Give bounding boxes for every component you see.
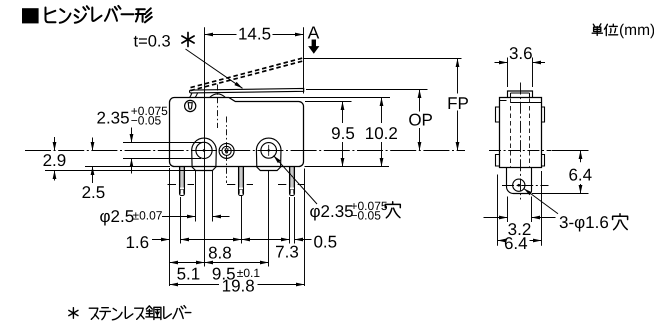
hinge lever free position (dashed) [191, 58, 304, 91]
extension line from lever tip (OP reference) [306, 89, 428, 91]
dimension 3.2 (bracket width) [508, 197, 532, 223]
svg-text:10.2: 10.2 [365, 124, 398, 143]
leader phi2.35 hole (to right mounting hole) [274, 156, 318, 204]
svg-text:6.4: 6.4 [568, 165, 592, 184]
small catch hole with U-clip, top-left [185, 100, 196, 111]
svg-text:5.1: 5.1 [177, 264, 201, 283]
svg-text:7.3: 7.3 [275, 242, 299, 261]
dimension 9.5 (vertical, right of body) [342, 102, 344, 167]
svg-text:(mm): (mm) [619, 22, 654, 39]
svg-text:φ2.35: φ2.35 [310, 202, 354, 221]
horizontal centerline through mounting holes [25, 150, 465, 152]
svg-text:−0.05: −0.05 [131, 114, 162, 128]
dimension 5.1 and 9.5+-0.1 [170, 262, 269, 264]
svg-text:A: A [308, 22, 320, 42]
upper side tabs [496, 107, 545, 122]
dimension 3.6 (plunger width) [508, 58, 533, 88]
right mounting boss [256, 138, 281, 170]
hinge hole centerline [502, 185, 549, 187]
bottom dimension extension lines [170, 168, 305, 286]
dimension 2.5 (centerline to body bottom) [92, 138, 94, 184]
dimension phi2.5 mounting hole (bottom left) [196, 171, 213, 222]
vertical centerline of plunger [217, 85, 219, 129]
lever hinge bend curves [190, 93, 198, 98]
hidden plunger lines (dashed) [511, 99, 530, 167]
svg-text:3-φ1.6: 3-φ1.6 [559, 213, 609, 232]
svg-text:2.35: 2.35 [97, 109, 130, 128]
plunger cap plate [508, 91, 533, 98]
terminal pin 3 [290, 167, 295, 196]
dimension 14.5 (hole center to lever end) [205, 27, 304, 266]
seating-level dashes across terminals [168, 184, 305, 186]
dimension 2.35 hole dia (left tangent extensions) [123, 143, 202, 159]
kanji hole (ana) after 3-phi1.6 [613, 214, 628, 230]
extension line from lever free position end (FP reference) [304, 58, 462, 60]
dimension 0.5 (terminal thickness) [295, 239, 312, 241]
right mounting hole (2.35 dia) [261, 143, 277, 159]
plunger cap neck [511, 93, 530, 98]
terminal pin 2 [239, 167, 244, 196]
title square bullet [22, 8, 39, 23]
svg-text:FP: FP [447, 94, 469, 113]
side vertical centerline [520, 83, 522, 200]
dimension 6.4 right (centerline to bracket bottom) [552, 150, 589, 152]
svg-text:−0.05: −0.05 [351, 209, 382, 223]
middle hole (2.5 dia) [219, 143, 234, 158]
svg-text:3.6: 3.6 [509, 44, 533, 63]
svg-text:t=0.3: t=0.3 [134, 32, 171, 50]
unit label: tan-i (mm) [592, 24, 618, 36]
side body outline [500, 98, 542, 168]
svg-text:2.9: 2.9 [43, 151, 67, 170]
extension of boss bottom, left (2.9 reference) [45, 170, 196, 172]
hinge bracket tab below body [507, 168, 532, 194]
left mounting boss [192, 138, 217, 170]
dimension 7.3 [242, 239, 290, 241]
svg-text:19.8: 19.8 [222, 276, 255, 295]
svg-text:8.8: 8.8 [208, 243, 232, 262]
svg-text:2.5: 2.5 [82, 183, 106, 202]
svg-text:OP: OP [408, 110, 433, 129]
terminal pin 1 [180, 167, 185, 196]
dimension FP (free position) [457, 59, 459, 151]
asterisk [69, 308, 78, 319]
extension of body bottom edge, right (9.5/10.2 reference) [305, 166, 390, 168]
left mounting hole (2.5 dia) [196, 142, 212, 158]
side horizontal centerline [489, 150, 552, 152]
svg-text:1.6: 1.6 [125, 233, 149, 252]
lower side tabs [496, 155, 545, 167]
leader 3-phi1.6 holes [524, 189, 558, 214]
footnote katakana/kanji [89, 306, 191, 320]
extension of stepped top edge (9.5 reference) [305, 101, 352, 103]
plunger dome on top edge [210, 94, 226, 98]
svg-text:6.4: 6.4 [504, 234, 528, 253]
dimension 19.8 (overall width) [170, 284, 305, 286]
extension of body top edge (10.2 reference) [229, 97, 390, 99]
dimension OP (operating position) [419, 90, 421, 151]
internal step edges of side body [500, 101, 542, 103]
svg-text:±0.07: ±0.07 [133, 208, 163, 222]
kanji hole (ana) after phi2.35 [385, 202, 400, 218]
dimension 10.2 (vertical) [381, 98, 383, 167]
dimension 6.4 bottom (body depth) [498, 171, 542, 246]
hinge hole (1.6 dia) [513, 179, 525, 191]
extension of body bottom, left (2.5 reference) [85, 166, 170, 168]
svg-text:φ2.5: φ2.5 [100, 207, 135, 226]
vertical centerline of middle hole [226, 117, 228, 184]
svg-text:9.5: 9.5 [331, 124, 355, 143]
switch body outline [170, 98, 304, 167]
dimension 2.9 (centerline to boss bottom) [54, 137, 56, 181]
hinge lever (solid, operating position) [190, 88, 304, 93]
dimension 8.8 [181, 239, 242, 241]
svg-text:0.5: 0.5 [313, 232, 337, 251]
title text: hinge lever type (katakana drawn as paths) [46, 6, 152, 23]
svg-text:14.5: 14.5 [238, 25, 271, 44]
